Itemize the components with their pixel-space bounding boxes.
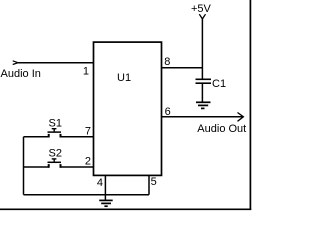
input arrow (Audio In) [13, 61, 18, 65]
switch S2 [48, 164, 62, 168]
ground (main, under pin 4) [99, 200, 113, 206]
ground (under C1) [196, 102, 211, 108]
svg-text:+5V: +5V [191, 3, 212, 15]
svg-text:U1: U1 [117, 72, 131, 84]
wire +5V rail vertical [201, 19, 203, 79]
svg-text:5: 5 [151, 176, 157, 188]
wire pin 6 (Audio Out) [162, 116, 244, 118]
svg-text:2: 2 [85, 156, 91, 168]
wire S2 right segment to pin 2 [60, 166, 94, 168]
wire left vertical bus [23, 137, 25, 195]
svg-text:8: 8 [164, 56, 170, 68]
wire C1 to ground [201, 83, 203, 102]
border bottom edge [0, 208, 251, 210]
wire S1 left segment [24, 136, 50, 138]
svg-text:7: 7 [85, 126, 91, 138]
switch S1 [48, 134, 62, 138]
svg-text:4: 4 [97, 177, 103, 189]
svg-text:Audio In: Audio In [1, 68, 41, 80]
wire bottom bus [24, 194, 150, 196]
svg-text:1: 1 [83, 66, 89, 78]
svg-text:S2: S2 [49, 148, 62, 160]
border right edge [249, 0, 251, 210]
wire Audio In to pin 1 [18, 62, 94, 64]
+5V terminal arrow [199, 14, 205, 19]
capacitor C1 [196, 79, 212, 83]
svg-text:S1: S1 [49, 118, 62, 130]
svg-text:6: 6 [165, 106, 171, 118]
svg-text:C1: C1 [212, 78, 226, 90]
wire pin 8 to +5V rail [162, 67, 203, 69]
op-amp U1 box [94, 42, 162, 175]
wire S2 left segment [24, 166, 50, 168]
wire S1 right segment to pin 7 [60, 136, 94, 138]
svg-text:Audio Out: Audio Out [197, 123, 246, 135]
wire pin 5 vertical [148, 175, 150, 194]
output arrow (Audio Out) [238, 113, 244, 122]
wire pin 4 vertical [104, 175, 106, 200]
